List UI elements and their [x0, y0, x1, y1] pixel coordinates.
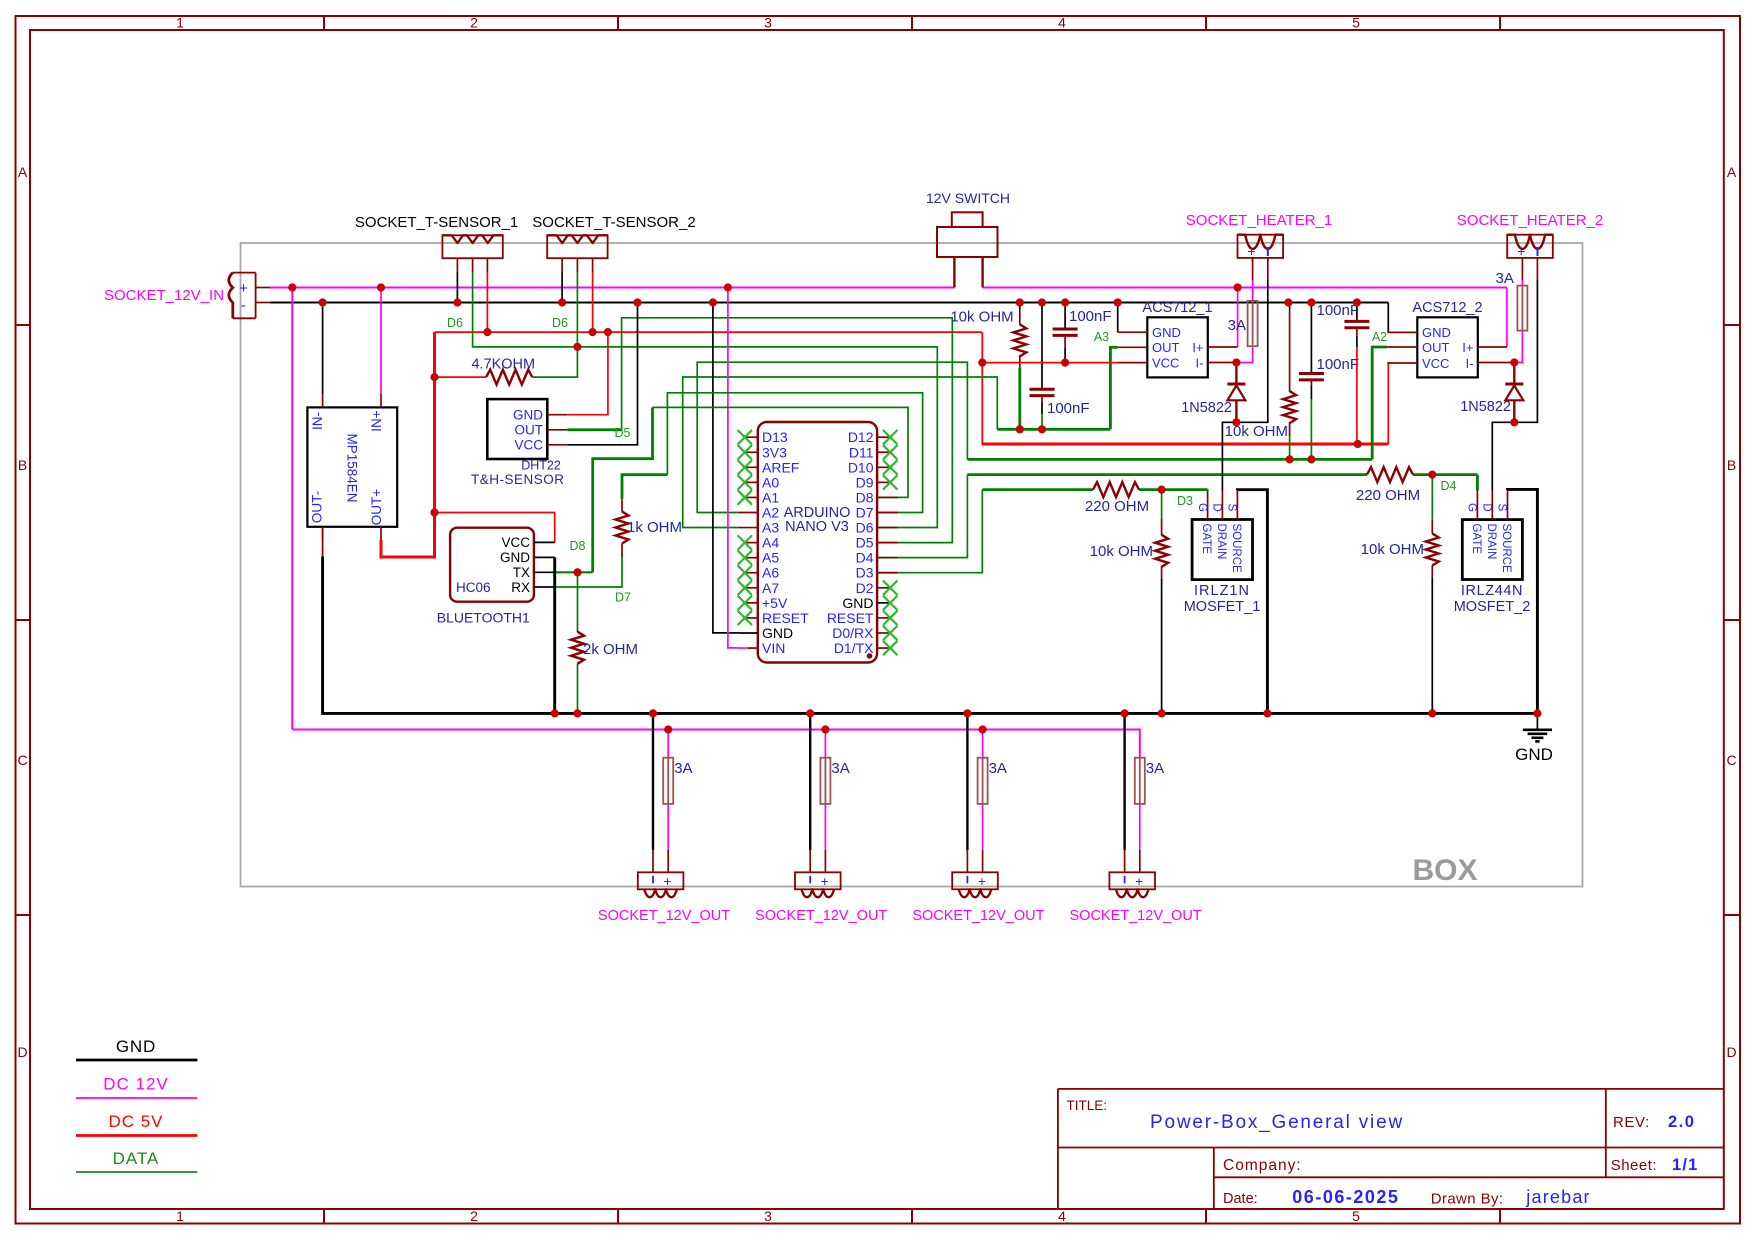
- wire net D4 Arduino D4 to 220 OHM: [877, 475, 1367, 558]
- diode D2 1N5822: [1460, 384, 1523, 415]
- svg-text:D8: D8: [856, 489, 874, 505]
- svg-text:3V3: 3V3: [762, 444, 787, 460]
- wire 100nF (ACS2 out filter) connections: [1310, 303, 1312, 460]
- svg-text:+: +: [1135, 874, 1143, 889]
- svg-text:REV:: REV:: [1613, 1114, 1650, 1131]
- wire socket_12V_out 3 +12V via fuse: [982, 730, 984, 873]
- svg-text:OUT+: OUT+: [369, 489, 384, 525]
- svg-text:D: D: [1480, 503, 1492, 511]
- wire socket_12V_out 2 +12V via fuse: [824, 730, 826, 873]
- svg-text:SOCKET_HEATER_2: SOCKET_HEATER_2: [1457, 212, 1603, 229]
- title block: [1058, 1089, 1724, 1209]
- label net A2: [1372, 330, 1387, 344]
- svg-text:1: 1: [176, 15, 184, 31]
- wire net A2 Arduino A2 to ACS712_2 OUT: [697, 347, 1387, 513]
- svg-text:1: 1: [176, 1208, 184, 1224]
- svg-text:BLUETOOTH1: BLUETOOTH1: [437, 610, 530, 626]
- svg-text:+: +: [239, 280, 248, 297]
- svg-text:D9: D9: [856, 474, 874, 490]
- svg-text:D3: D3: [1177, 494, 1193, 508]
- svg-text:GND: GND: [1422, 325, 1451, 340]
- wire diode1 leads: [1235, 363, 1237, 423]
- svg-text:VCC: VCC: [514, 438, 543, 453]
- wire net D6 (sensor data): [473, 272, 938, 528]
- wire sensor2 data pin: [576, 272, 578, 347]
- svg-text:D8: D8: [570, 539, 586, 553]
- svg-text:D3: D3: [856, 565, 874, 581]
- svg-text:SOCKET_12V_OUT: SOCKET_12V_OUT: [598, 908, 730, 924]
- svg-text:A2: A2: [1372, 330, 1387, 344]
- svg-text:1N5822: 1N5822: [1181, 400, 1232, 416]
- wire socket_12V_out 1 GND: [652, 713, 654, 872]
- svg-text:D12: D12: [848, 429, 874, 445]
- svg-text:+: +: [821, 874, 829, 889]
- resistor R4 10k OHM (A3 pull): [950, 309, 1026, 357]
- svg-text:06-06-2025: 06-06-2025: [1292, 1187, 1399, 1207]
- svg-text:MOSFET_1: MOSFET_1: [1184, 599, 1261, 615]
- connector SOCKET_12V_OUT 1: [598, 872, 730, 924]
- svg-text:220 OHM: 220 OHM: [1085, 498, 1149, 515]
- svg-text:1k OHM: 1k OHM: [627, 519, 682, 536]
- svg-text:3: 3: [764, 1208, 772, 1224]
- wire socket_12V_out 3 GND: [966, 713, 968, 872]
- svg-text:RX: RX: [511, 580, 530, 595]
- svg-text:SOCKET_HEATER_1: SOCKET_HEATER_1: [1186, 212, 1332, 229]
- svg-text:DC 12V: DC 12V: [103, 1075, 169, 1094]
- svg-text:TITLE:: TITLE:: [1067, 1098, 1108, 1113]
- wire net D8 HC06 TX to Arduino D8: [555, 407, 908, 572]
- svg-text:GND: GND: [116, 1037, 156, 1056]
- legend DC 5V: [76, 1112, 197, 1136]
- svg-text:T&H-SENSOR: T&H-SENSOR: [471, 472, 565, 487]
- ground GND symbol: [1515, 713, 1553, 764]
- wire 12V vertical to bottom bus (magenta): [291, 288, 293, 730]
- connector SOCKET_12V_OUT 3: [912, 872, 1044, 924]
- wire ACS712_1 GND to bus: [1117, 303, 1119, 333]
- wire MP1584EN IN- to GND bus: [322, 303, 324, 395]
- wire 4.7KOHM to D6 net: [532, 347, 577, 377]
- svg-text:B: B: [18, 457, 27, 473]
- wire sensor1 VCC pin: [486, 272, 488, 332]
- wire 10k OHM (A3 pull) to GND bus: [1019, 303, 1021, 430]
- svg-text:+: +: [664, 874, 672, 889]
- wire ACS712_2 VCC to 5V: [1387, 363, 1389, 444]
- svg-text:SOCKET_T-SENSOR_1: SOCKET_T-SENSOR_1: [355, 214, 518, 231]
- svg-text:OUT: OUT: [1422, 340, 1450, 355]
- svg-text:C: C: [1726, 752, 1736, 768]
- svg-text:Company:: Company:: [1223, 1157, 1302, 1174]
- transistor Q1 IRLZ1N MOSFET_1: [1184, 490, 1261, 615]
- svg-text:D: D: [1726, 1044, 1736, 1060]
- svg-text:D10: D10: [848, 459, 874, 475]
- wire net 12V magenta top bus: [270, 287, 1507, 289]
- wire ACS712_2 I+ to 12V bus: [1506, 288, 1508, 348]
- svg-text:D: D: [17, 1044, 27, 1060]
- svg-text:GATE: GATE: [1200, 524, 1212, 555]
- wire 5V branch to ACS712_1 VCC: [982, 362, 1117, 364]
- svg-text:DHT22: DHT22: [521, 459, 561, 473]
- svg-text:D: D: [1211, 503, 1223, 511]
- wire sensor2 GND pin: [561, 272, 563, 303]
- sensor U3 DHT22: [471, 399, 567, 487]
- svg-text:GND: GND: [1152, 325, 1181, 340]
- capacitor C2 100nF (ACS1 out): [1030, 389, 1090, 417]
- svg-text:IRLZ44N: IRLZ44N: [1461, 583, 1523, 599]
- svg-text:5: 5: [1352, 15, 1360, 31]
- svg-text:D4: D4: [1441, 479, 1457, 493]
- module U4 HC06 BLUETOOTH1: [437, 528, 555, 626]
- label net D7: [615, 591, 631, 605]
- wire DHT22 VCC to GND bus: [567, 303, 637, 445]
- label net D3: [1177, 494, 1193, 508]
- fuse F5 3A (socket_12V_out 3): [978, 758, 1007, 804]
- transistor Q2 IRLZ44N MOSFET_2: [1454, 490, 1531, 615]
- wire 10k OHM (A2 pull) to GND bus: [1289, 303, 1291, 460]
- svg-text:-: -: [241, 297, 246, 314]
- svg-text:3A: 3A: [674, 760, 692, 777]
- svg-text:S: S: [1226, 504, 1238, 512]
- wire 100nF (ACS1 vcc filter) connections: [1064, 303, 1066, 363]
- svg-text:D11: D11: [849, 444, 874, 460]
- wire net GND black bottom bus: [323, 557, 1538, 714]
- wire 10k OHM (gate2 pulldown) to GND bus: [1431, 475, 1433, 714]
- mcu U1 ARDUINO NANO V3: [738, 422, 898, 663]
- svg-text:TX: TX: [513, 565, 530, 580]
- resistor R8 220 OHM (D4): [1356, 467, 1420, 504]
- svg-text:D6: D6: [856, 520, 874, 536]
- wire net 12V magenta bottom bus: [292, 730, 1140, 758]
- svg-text:2: 2: [470, 15, 478, 31]
- svg-text:+: +: [1247, 243, 1255, 259]
- svg-text:VCC: VCC: [1422, 356, 1449, 371]
- svg-text:ACS712_1: ACS712_1: [1142, 300, 1212, 316]
- svg-text:I-: I-: [1466, 356, 1474, 371]
- svg-text:D7: D7: [856, 505, 874, 521]
- legend DC 12V: [76, 1075, 197, 1099]
- wire sensor1 GND pin: [456, 272, 458, 303]
- sensor U5 ACS712_1: [1118, 300, 1238, 377]
- label net D4: [1441, 479, 1457, 493]
- switch SW1 12V SWITCH: [926, 190, 1010, 288]
- capacitor C4 100nF (ACS2 vcc): [1317, 302, 1370, 328]
- svg-text:1N5822: 1N5822: [1460, 399, 1511, 415]
- svg-text:HC06: HC06: [456, 580, 491, 595]
- svg-text:SOCKET_12V_IN: SOCKET_12V_IN: [104, 287, 224, 304]
- svg-text:D7: D7: [615, 591, 631, 605]
- svg-text:GND: GND: [842, 595, 873, 611]
- wire 220 OHM to MOSFET_2 gate: [1413, 475, 1477, 491]
- svg-text:OUT-: OUT-: [310, 491, 325, 523]
- junction dots 12V bus: [288, 283, 1242, 291]
- svg-text:12V SWITCH: 12V SWITCH: [926, 190, 1010, 206]
- svg-text:5: 5: [1352, 1208, 1360, 1224]
- junction dots 5V rail: [430, 328, 1361, 517]
- wire heater1 - to MOSFET_1 drain: [1222, 258, 1267, 491]
- svg-text:2.0: 2.0: [1668, 1113, 1695, 1131]
- svg-text:3A: 3A: [1496, 270, 1514, 287]
- svg-text:C: C: [17, 752, 27, 768]
- fuse F1 3A (heater1): [1228, 301, 1258, 346]
- wire ACS712_2 I- to fuse and heater2 +: [1514, 258, 1522, 363]
- svg-text:+: +: [1517, 243, 1525, 259]
- wire Arduino GND to GND bus: [713, 303, 738, 633]
- svg-text:S: S: [1495, 504, 1507, 512]
- wire MP1584EN OUT+ to 5V rail: [381, 332, 435, 557]
- svg-text:AREF: AREF: [762, 459, 799, 475]
- label net D6 (sensor2): [552, 316, 568, 330]
- legend GND: [76, 1037, 197, 1060]
- wire socket_12V_out 4 GND: [1123, 713, 1125, 872]
- wire net 5V red bus (top): [435, 332, 1389, 444]
- wire net D3 Arduino D3 to 220 OHM: [877, 490, 1093, 573]
- sensor U6 ACS712_2: [1387, 300, 1514, 377]
- svg-text:100nF: 100nF: [1047, 400, 1090, 417]
- wire ACS712_2 GND to bus: [1387, 303, 1389, 333]
- svg-text:A3: A3: [1094, 330, 1109, 344]
- svg-text:A: A: [18, 164, 28, 180]
- svg-text:SOCKET_12V_OUT: SOCKET_12V_OUT: [1070, 908, 1202, 924]
- wire 100nF (ACS2 vcc filter) connections: [1356, 303, 1358, 445]
- svg-text:OUT: OUT: [1152, 340, 1180, 355]
- svg-text:A5: A5: [762, 550, 779, 566]
- svg-text:A4: A4: [762, 535, 779, 551]
- module U2 MP1584EN: [307, 394, 397, 540]
- svg-text:SOURCE: SOURCE: [1500, 524, 1512, 574]
- connector SOCKET_12V_OUT 4: [1070, 872, 1202, 924]
- svg-text:D6: D6: [552, 316, 568, 330]
- svg-text:IRLZ1N: IRLZ1N: [1194, 583, 1250, 599]
- svg-text:SOCKET_12V_OUT: SOCKET_12V_OUT: [912, 908, 1044, 924]
- svg-text:OUT: OUT: [515, 423, 544, 438]
- resistor R6 220 OHM (D3): [1085, 482, 1149, 515]
- svg-text:+5V: +5V: [762, 595, 788, 611]
- svg-text:D4: D4: [856, 550, 874, 566]
- svg-text:I+: I+: [1192, 340, 1203, 355]
- diode D1 1N5822: [1181, 384, 1245, 416]
- svg-text:A7: A7: [762, 580, 779, 596]
- connector SOCKET_12V_IN: [104, 273, 270, 319]
- junction dots heater nets: [1232, 358, 1518, 426]
- junction dots 12V bottom bus: [664, 725, 987, 733]
- fuse F6 3A (socket_12V_out 4): [1135, 758, 1164, 804]
- svg-text:G: G: [1196, 503, 1208, 512]
- wire socket_12V_out 4 +12V via fuse: [1139, 804, 1141, 872]
- svg-text:jarebar: jarebar: [1525, 1187, 1590, 1207]
- svg-text:4.7KOHM: 4.7KOHM: [471, 357, 535, 373]
- svg-text:B: B: [1727, 457, 1736, 473]
- svg-text:GND: GND: [762, 625, 793, 641]
- svg-text:10k OHM: 10k OHM: [950, 309, 1013, 326]
- wire ACS712_1 I- to fuse and heater1 +: [1236, 258, 1252, 363]
- svg-text:4: 4: [1058, 1208, 1066, 1224]
- svg-text:DRAIN: DRAIN: [1485, 524, 1497, 560]
- svg-text:SOCKET_12V_OUT: SOCKET_12V_OUT: [755, 908, 887, 924]
- svg-text:3A: 3A: [1228, 317, 1246, 334]
- connector SOCKET_HEATER_1: [1186, 212, 1332, 262]
- junction dots GND bottom bus: [551, 709, 1542, 717]
- svg-text:GND: GND: [1515, 745, 1553, 764]
- svg-text:10k OHM: 10k OHM: [1361, 541, 1424, 558]
- svg-text:4: 4: [1058, 15, 1066, 31]
- wire 10k OHM (gate1 pulldown) to GND bus: [1161, 490, 1163, 714]
- svg-text:+: +: [978, 874, 986, 889]
- wire 220 OHM to MOSFET_1 gate: [1139, 488, 1208, 492]
- wire socket_12V_out 2 GND: [809, 713, 811, 872]
- svg-text:IN+: IN+: [369, 410, 384, 432]
- svg-text:VCC: VCC: [501, 535, 530, 550]
- svg-text:2k OHM: 2k OHM: [583, 641, 638, 658]
- svg-text:GND: GND: [500, 550, 530, 565]
- svg-text:ACS712_2: ACS712_2: [1412, 300, 1482, 316]
- svg-text:VCC: VCC: [1152, 356, 1179, 371]
- junction dots data nets: [573, 343, 1436, 577]
- svg-text:A3: A3: [762, 520, 779, 536]
- resistor R9 10k OHM (gate2): [1361, 534, 1439, 566]
- svg-text:A: A: [1727, 164, 1737, 180]
- svg-text:DATA: DATA: [113, 1149, 160, 1168]
- svg-text:IN-: IN-: [310, 412, 325, 430]
- svg-text:BOX: BOX: [1412, 854, 1477, 887]
- box outline BOX: [241, 243, 1583, 887]
- svg-text:RESET: RESET: [762, 610, 809, 626]
- svg-text:10k OHM: 10k OHM: [1090, 543, 1153, 560]
- wire 100nF (ACS1 out filter) connections: [1041, 303, 1043, 430]
- wire 5V to 4.7KOHM: [435, 376, 487, 378]
- svg-text:1/1: 1/1: [1672, 1156, 1699, 1174]
- wire DHT22 GND to 5V: [567, 332, 608, 415]
- wire ACS712_1 I+ to 12V bus: [1237, 288, 1239, 348]
- svg-text:SOCKET_T-SENSOR_2: SOCKET_T-SENSOR_2: [532, 214, 695, 231]
- resistor R1 4.7KOHM: [471, 357, 535, 385]
- label net D8: [570, 539, 586, 553]
- label net D6 (sensor1): [447, 316, 463, 330]
- legend DATA: [76, 1149, 197, 1172]
- svg-text:A6: A6: [762, 565, 779, 581]
- wire socket_12V_out 1 +12V via fuse: [667, 730, 669, 873]
- svg-text:3A: 3A: [989, 760, 1007, 777]
- svg-text:I-: I-: [1196, 356, 1204, 371]
- wire net GND black top bus: [270, 301, 1388, 303]
- fuse F2 3A (heater2): [1496, 270, 1528, 331]
- junction dots GND top bus: [319, 298, 1362, 306]
- svg-text:DRAIN: DRAIN: [1215, 524, 1227, 560]
- svg-text:220 OHM: 220 OHM: [1356, 487, 1420, 504]
- svg-text:G: G: [1466, 503, 1478, 512]
- svg-text:100nF: 100nF: [1317, 356, 1360, 373]
- svg-text:Power-Box_General view: Power-Box_General view: [1150, 1112, 1404, 1133]
- fuse F3 3A (socket_12V_out 1): [663, 758, 692, 804]
- wire 5V to HC06 VCC: [435, 513, 555, 543]
- svg-text:Date:: Date:: [1223, 1191, 1258, 1207]
- svg-text:GATE: GATE: [1470, 524, 1482, 555]
- svg-text:Drawn By:: Drawn By:: [1431, 1191, 1504, 1208]
- svg-text:VIN: VIN: [762, 640, 785, 656]
- svg-text:MP1584EN: MP1584EN: [344, 433, 359, 502]
- svg-text:D0/RX: D0/RX: [832, 625, 874, 641]
- connector SOCKET_12V_OUT 2: [755, 872, 887, 924]
- svg-text:A0: A0: [762, 474, 779, 490]
- wire net A3 Arduino A3 to ACS712_1 OUT: [683, 347, 1118, 527]
- svg-text:MOSFET_2: MOSFET_2: [1454, 599, 1531, 615]
- svg-text:D13: D13: [762, 429, 788, 445]
- resistor R7 10k OHM (gate1): [1090, 535, 1168, 567]
- svg-text:100nF: 100nF: [1317, 302, 1360, 319]
- svg-text:2: 2: [470, 1208, 478, 1224]
- connector SOCKET_T-SENSOR_2: [532, 214, 695, 272]
- svg-text:3A: 3A: [1146, 760, 1164, 777]
- resistor R3 2k OHM: [571, 632, 638, 664]
- wire diode2 leads: [1513, 363, 1515, 423]
- fuse F4 3A (socket_12V_out 2): [820, 758, 849, 804]
- label net A3: [1094, 330, 1109, 344]
- wire net D5 DHT22 OUT to Arduino D5: [567, 318, 952, 543]
- svg-text:SOURCE: SOURCE: [1230, 524, 1242, 574]
- wire HC06 GND to GND bus: [553, 557, 556, 713]
- connector SOCKET_HEATER_2: [1457, 212, 1603, 259]
- svg-text:D6: D6: [447, 316, 463, 330]
- svg-text:D5: D5: [856, 535, 874, 551]
- resistor R2 1k OHM: [616, 499, 683, 557]
- svg-text:D5: D5: [615, 426, 631, 440]
- wire Arduino VIN to 12V bus: [728, 288, 738, 648]
- svg-text:3: 3: [764, 15, 772, 31]
- label net D5: [615, 426, 631, 440]
- wire net D7 HC06 RX via 1k to Arduino D7: [555, 393, 923, 587]
- capacitor C3 100nF (ACS2 out): [1299, 356, 1359, 380]
- svg-text:I+: I+: [1462, 340, 1473, 355]
- svg-text:Sheet:: Sheet:: [1611, 1157, 1657, 1174]
- wire MOSFET_2 source to GND bus: [1508, 489, 1538, 713]
- svg-text:D2: D2: [856, 580, 874, 596]
- capacitor C1 100nF (ACS1 vcc): [1053, 308, 1112, 335]
- wire MOSFET_1 source to GND bus: [1237, 490, 1267, 714]
- svg-text:DC 5V: DC 5V: [108, 1112, 163, 1131]
- svg-text:A2: A2: [762, 505, 779, 521]
- wire sensor2 VCC pin: [592, 272, 594, 332]
- svg-text:RESET: RESET: [827, 610, 874, 626]
- wire heater2 - to MOSFET_2 drain: [1492, 258, 1537, 491]
- svg-text:NANO V3: NANO V3: [785, 519, 849, 535]
- svg-text:3A: 3A: [831, 760, 849, 777]
- resistor R5 10k OHM (A2 pull): [1225, 391, 1296, 440]
- svg-text:A1: A1: [762, 489, 779, 505]
- wire MP1584EN OUT- to GND bus: [322, 527, 324, 557]
- svg-text:100nF: 100nF: [1069, 308, 1112, 325]
- wire 2k OHM to GND: [577, 572, 579, 713]
- svg-text:GND: GND: [513, 408, 543, 423]
- connector SOCKET_T-SENSOR_1: [355, 214, 518, 272]
- wire MP1584EN IN+ to 12V bus: [380, 288, 382, 395]
